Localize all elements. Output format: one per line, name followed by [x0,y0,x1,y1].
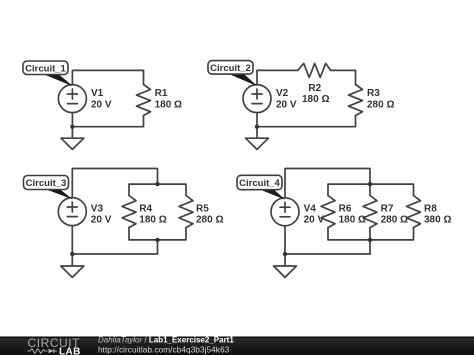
wire V1 bottom lead [71,113,73,139]
node C4 bottom junction [368,238,372,242]
svg-text:R3: R3 [367,88,380,99]
wire V4 bottom lead [284,226,286,266]
svg-text:20 V: 20 V [91,99,112,110]
logo LAB text [59,347,81,355]
ground C3 [61,266,84,277]
wire C2 bottom [257,116,356,127]
resistor R2 [298,63,331,77]
svg-text:DahliaTaylor / Lab1_Exercise2_: DahliaTaylor / Lab1_Exercise2_Part1 [98,336,234,345]
svg-text:Circuit_3: Circuit_3 [26,178,67,189]
node C3 top junction [155,182,159,186]
wire C1 top [72,70,143,84]
label V3 value [91,204,112,226]
wire C1 bottom [72,116,143,127]
svg-text:20 V: 20 V [304,215,325,226]
footer bar [0,337,474,355]
svg-text:Circuit_1: Circuit_1 [25,63,66,74]
wire C3 top [72,169,157,198]
wire C3 bottom bus [129,228,186,240]
node Circuit_3 callout [24,176,73,200]
node C3 ground junction [70,252,74,256]
voltage source V4 [271,198,299,226]
svg-text:R4: R4 [139,204,152,215]
resistor R7 [363,196,377,228]
svg-text:180 Ω: 180 Ω [155,99,182,110]
resistor R4 [122,196,136,228]
footer credit line1 [98,336,234,345]
svg-text:R2: R2 [308,83,321,94]
svg-text:20 V: 20 V [91,215,112,226]
logo diode [49,349,57,354]
wire C4 bottom bus [328,228,414,240]
footer credit line2 [98,344,230,354]
svg-text:20 V: 20 V [276,99,297,110]
svg-text:R5: R5 [196,204,209,215]
svg-text:180 Ω: 180 Ω [339,215,366,226]
label R3 value [367,88,394,110]
svg-text:http://circuitlab.com/cb4q3b3j: http://circuitlab.com/cb4q3b3j54k63 [98,344,230,354]
label R1 value [155,88,182,110]
label R4 value [139,204,166,226]
ground C2 [246,138,269,149]
wire V3 bottom lead [71,226,73,266]
label R8 value [424,204,451,226]
svg-text:180 Ω: 180 Ω [139,215,166,226]
svg-text:V2: V2 [276,88,289,99]
wire C3 top bus [129,184,186,195]
logo CIRCUIT text [28,336,81,350]
svg-text:V1: V1 [91,88,104,99]
label V4 value [304,204,325,226]
svg-text:R7: R7 [381,204,394,215]
node C3 bottom junction [155,238,159,242]
label V2 value [276,88,297,110]
wire C2 top [257,70,356,84]
label V1 value [91,88,112,110]
resistor R5 [179,196,193,228]
svg-text:LAB: LAB [59,347,81,355]
svg-text:Circuit_4: Circuit_4 [239,178,280,189]
ground C4 [274,266,297,277]
wire C4 top bus [328,184,414,195]
svg-text:R1: R1 [155,88,168,99]
svg-text:280 Ω: 280 Ω [196,215,223,226]
voltage source V1 [58,85,86,113]
resistor R3 [349,85,363,116]
ground C1 [61,138,84,149]
svg-text:380 Ω: 380 Ω [424,215,451,226]
wire C4 top [285,169,370,198]
wire V2 bottom lead [256,113,258,139]
label R5 value [196,204,223,226]
svg-text:Circuit_2: Circuit_2 [210,63,251,74]
node Circuit_2 callout [208,61,257,87]
label R6 value [339,204,366,226]
svg-text:280 Ω: 280 Ω [381,215,408,226]
svg-text:V3: V3 [91,204,104,215]
svg-text:280 Ω: 280 Ω [367,99,394,110]
wire C3 bottom [72,240,157,254]
svg-text:R6: R6 [339,204,352,215]
resistor R6 [321,196,335,228]
resistor R8 [407,196,421,228]
voltage source V2 [243,85,271,113]
svg-text:R8: R8 [424,204,437,215]
node C1 ground junction [70,125,74,129]
resistor R1 [137,85,151,116]
node C2 ground junction [255,125,259,129]
wire C4 bottom [285,253,370,255]
svg-text:V4: V4 [304,204,317,215]
label R2 value [302,83,329,105]
node Circuit_1 callout [23,61,73,86]
svg-text:180 Ω: 180 Ω [302,94,329,105]
node C4 ground junction [283,252,287,256]
logo resistor zigzag [28,349,48,354]
node Circuit_4 callout [237,175,285,199]
node C4 top junction [368,182,372,186]
label R7 value [381,204,408,226]
voltage source V3 [58,198,86,226]
wire R7 bottom lead [369,228,371,255]
